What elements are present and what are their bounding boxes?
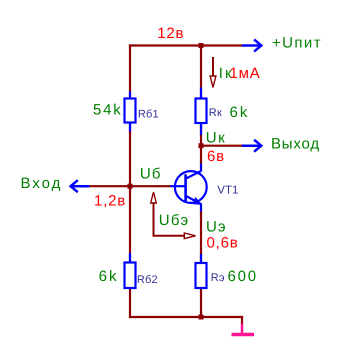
label 54k xyxy=(93,102,123,119)
svg-text:+Uпит: +Uпит xyxy=(272,35,322,52)
label Ik (green part) xyxy=(219,65,234,82)
svg-text:VT1: VT1 xyxy=(217,185,238,197)
wire right vertical emitter branch lower xyxy=(200,211,202,319)
label +Upit xyxy=(272,35,322,52)
svg-text:12в: 12в xyxy=(157,25,184,42)
label 1,2v xyxy=(94,193,126,210)
label VT1 designator xyxy=(217,185,238,197)
svg-text:Вход: Вход xyxy=(21,175,63,192)
transistor VT1 circle xyxy=(175,171,207,203)
svg-text:Rэ: Rэ xyxy=(211,272,225,284)
label 1mA (red part) xyxy=(230,65,261,82)
svg-text:Rб2: Rб2 xyxy=(137,274,158,286)
label RB1 designator xyxy=(138,109,159,121)
arrow input (Vhod) xyxy=(71,180,90,192)
label 6k for Rk xyxy=(230,104,250,121)
wire bottom horizontal xyxy=(129,316,243,318)
svg-text:600: 600 xyxy=(228,268,258,285)
transistor VT1 collector lead xyxy=(186,164,201,179)
svg-text:6k: 6k xyxy=(99,268,119,285)
svg-text:6в: 6в xyxy=(207,148,225,165)
svg-text:Uб: Uб xyxy=(140,166,162,183)
svg-text:Uк: Uк xyxy=(206,130,226,147)
label 12v xyxy=(157,25,184,42)
wire Uk output stub xyxy=(201,145,243,147)
resistor RB2 xyxy=(125,253,136,288)
wire right vertical collector branch upper xyxy=(200,44,202,165)
svg-text:Uбэ: Uбэ xyxy=(159,212,190,229)
resistor RB1 xyxy=(125,92,136,132)
junction node Uk xyxy=(199,143,204,148)
label Vyhod xyxy=(271,136,320,153)
transistor VT1 emitter lead with arrow xyxy=(186,196,201,212)
current arrow Ik xyxy=(210,57,216,88)
label 6k for RB2 xyxy=(99,268,119,285)
svg-text:1,2в: 1,2в xyxy=(94,193,126,210)
label RB2 designator xyxy=(137,274,158,286)
label Uk xyxy=(206,130,226,147)
svg-text:54k: 54k xyxy=(93,102,123,119)
junction node bottom Re xyxy=(199,315,204,320)
label Vhod xyxy=(21,175,63,192)
wire left vertical branch xyxy=(129,44,131,318)
svg-text:Rк: Rк xyxy=(209,107,222,119)
wire top horizontal 12v rail xyxy=(129,44,242,46)
junction node base Ub xyxy=(128,184,133,189)
arrow output (Vyhod) xyxy=(242,140,261,152)
svg-text:Выход: Выход xyxy=(271,136,320,153)
svg-text:6k: 6k xyxy=(230,104,250,121)
label Ub xyxy=(140,166,162,183)
label Ube xyxy=(159,212,190,229)
label Rk designator xyxy=(209,107,222,119)
transistor VT1 base lead xyxy=(171,185,186,187)
ground symbol xyxy=(232,324,255,335)
svg-text:1мА: 1мА xyxy=(230,65,261,82)
wire base horizontal xyxy=(89,185,172,187)
label Ue xyxy=(206,219,227,236)
measurement arrow Ube (L-shaped) xyxy=(151,192,196,239)
svg-text:0,6в: 0,6в xyxy=(207,235,239,252)
label 0,6v xyxy=(207,235,239,252)
svg-text:Uэ: Uэ xyxy=(206,219,227,236)
label Re designator xyxy=(211,272,225,284)
resistor Re xyxy=(196,254,207,288)
wire ground stem upper xyxy=(241,316,243,325)
svg-text:Rб1: Rб1 xyxy=(138,109,159,121)
label 600 xyxy=(228,268,258,285)
arrow +Upit xyxy=(242,40,261,52)
junction node at 12v rail / Rk xyxy=(199,43,204,48)
resistor Rk xyxy=(196,88,207,136)
transistor VT1 base bar xyxy=(184,174,187,201)
label 6v xyxy=(207,148,225,165)
